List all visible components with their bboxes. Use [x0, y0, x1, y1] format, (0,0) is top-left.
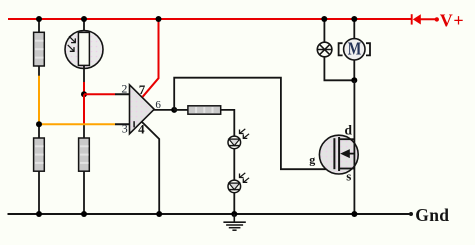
node junction Gnd R3: [81, 211, 87, 217]
wire drain node to source to Gnd rail: [353, 80, 355, 214]
wire V+ rail: [8, 18, 412, 20]
node junction output: [171, 107, 177, 113]
LED D2: [228, 129, 249, 149]
wire lamp to drain node: [324, 57, 354, 81]
wire rail to lamp: [323, 19, 325, 43]
wire LED D3 to Gnd rail: [233, 193, 235, 214]
node junction red: [81, 91, 87, 97]
resistor R1: [34, 32, 45, 66]
wire red node down: [83, 94, 85, 124]
wire orange R1 to node: [38, 76, 40, 125]
wire orange node to op-amp pin3: [39, 123, 115, 125]
wire R4 to corner: [221, 110, 235, 136]
svg-text:M: M: [348, 40, 362, 59]
wire LDR bottom stub: [83, 66, 85, 83]
op-amp U1: [130, 85, 155, 134]
wire feedback to gate: [174, 78, 334, 170]
node V+ terminal: [435, 17, 439, 21]
node Gnd terminal: [409, 212, 413, 216]
LED D3: [228, 173, 249, 193]
wire Gnd rail: [8, 213, 411, 215]
node junction orange: [36, 121, 42, 127]
wire red node to op-amp pin2: [84, 93, 115, 95]
wire motor to drain node: [353, 60, 355, 80]
photoresistor LDR1: [65, 31, 103, 69]
wire op-amp output pin6: [154, 109, 175, 111]
node junction drain: [351, 77, 357, 83]
node junction top rail pin7: [156, 16, 162, 22]
wire rail to R1: [38, 19, 40, 33]
svg-text:s: s: [346, 169, 351, 184]
node junction Gnd LED: [231, 211, 237, 217]
motor M1: [339, 39, 370, 60]
node junction Gnd source: [351, 211, 357, 217]
wire LED D2 to LED D3: [233, 149, 235, 181]
svg-text:2: 2: [121, 81, 127, 95]
diode D1: [412, 14, 421, 24]
resistor R2: [34, 138, 45, 171]
wire V+ rail right segment: [420, 18, 437, 20]
wire black stub op-amp pin3: [115, 123, 137, 125]
resistor R3: [79, 138, 90, 171]
wire R2 to Gnd rail: [38, 171, 40, 214]
transistor Q1 MOSFET: [319, 135, 358, 174]
wire node to R3: [83, 125, 85, 139]
wire op-amp pin4 to Gnd rail: [142, 122, 160, 214]
svg-text:3: 3: [122, 122, 128, 136]
ground symbol: [223, 214, 245, 230]
wire R1 bottom stub: [38, 66, 40, 76]
node junction top rail R1: [36, 16, 42, 22]
lamp L1: [317, 42, 333, 57]
node junction top rail LDR: [81, 16, 87, 22]
node junction Gnd R2: [36, 211, 42, 217]
node junction top rail motor: [351, 16, 357, 22]
svg-text:V+: V+: [440, 11, 464, 31]
wire output to R4: [174, 109, 188, 111]
svg-text:d: d: [345, 123, 353, 138]
wire rail to LDR: [83, 19, 85, 32]
svg-text:g: g: [309, 153, 315, 167]
svg-text:Gnd: Gnd: [415, 205, 449, 225]
wire red op-amp pin7 to rail: [143, 19, 159, 97]
node junction Gnd pin4: [156, 211, 162, 217]
resistor R4: [188, 106, 221, 114]
wire rail to motor: [353, 19, 355, 39]
wire black stub op-amp pin2: [115, 93, 137, 95]
node junction top rail lamp: [321, 16, 327, 22]
wire R3 to Gnd rail: [83, 171, 85, 214]
wire red LDR to node: [83, 82, 85, 94]
wire node to R2: [38, 124, 40, 138]
